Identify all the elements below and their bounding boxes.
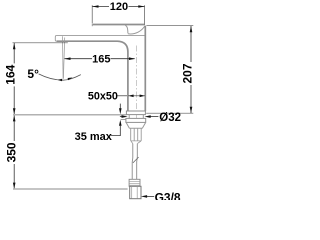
body centerline — [136, 46, 138, 123]
lever front end — [91, 24, 93, 26]
dimension 120 arrow right — [138, 5, 144, 8]
dimension 120 extension line left — [91, 5, 93, 23]
svg-text:120: 120 — [110, 1, 128, 13]
dimension 164 arrow top — [13, 43, 16, 49]
connector nut facets — [132, 187, 138, 199]
dimension 35 max lower arrow — [119, 120, 122, 126]
hose end reference line — [13, 188, 128, 190]
water jet vertical line — [62, 36, 65, 78]
dimension 165 arrow right — [129, 57, 135, 60]
dimension 165 arrow left — [64, 57, 70, 60]
flexible hose — [132, 144, 137, 180]
svg-text:35 max: 35 max — [75, 131, 113, 143]
mounting nut — [126, 123, 145, 129]
hose collar bottom — [131, 141, 142, 144]
dimension 350 line — [13, 115, 15, 189]
angle 5 deg leader and arc — [39, 74, 81, 80]
svg-text:164: 164 — [4, 64, 18, 84]
horseshoe washer — [126, 118, 146, 122]
dimension 207 extension top — [146, 25, 193, 27]
body top saddle curve — [128, 26, 145, 34]
dimension 50x50 arrow left — [128, 95, 133, 98]
dimension diameter 32 right arrow — [150, 116, 158, 118]
dimension 207 arrow top — [190, 26, 193, 32]
dimension 165 label — [92, 54, 110, 64]
dimension 207 label — [183, 62, 193, 85]
dimension 164 extension line — [13, 42, 68, 44]
body rear edge — [144, 26, 146, 112]
connector G3/8 arrow — [141, 195, 147, 198]
arc arrow right — [68, 78, 73, 81]
svg-text:G3/8: G3/8 — [155, 191, 181, 201]
spout tip — [55, 35, 56, 41]
lever rear step — [125, 25, 128, 33]
dimension 350 arrow top — [13, 115, 16, 121]
svg-text:Ø32: Ø32 — [159, 112, 181, 124]
hose ferrule — [129, 179, 140, 186]
svg-text:50x50: 50x50 — [88, 91, 118, 103]
svg-text:350: 350 — [4, 142, 18, 162]
arc arrow left — [57, 79, 62, 81]
hose collars — [131, 128, 142, 141]
dimension 50x50 inner line — [128, 95, 145, 97]
dimension 207 extension bottom / deck right — [146, 112, 193, 114]
dimension diameter 32 left arrow — [120, 116, 122, 118]
svg-text:207: 207 — [181, 63, 195, 83]
hose break mark — [133, 157, 139, 163]
dimension 164 arrow bottom — [13, 108, 16, 114]
ferrule grooves — [129, 181, 140, 185]
dimension 120 line — [92, 6, 144, 8]
dimension 165 line — [65, 58, 135, 60]
shank left — [128, 115, 130, 119]
dimension 350 label — [6, 141, 16, 164]
countertop underside stub — [121, 119, 126, 121]
dimension 207 arrow bottom — [190, 107, 193, 113]
lever top line — [93, 24, 145, 26]
dimension 164 label — [6, 63, 16, 86]
spout top edge — [56, 34, 144, 36]
dimension 50x50 arrow right — [140, 95, 145, 98]
dimension 50x50 leader — [116, 95, 127, 97]
dimension 35 max upper arrow — [119, 104, 121, 109]
svg-text:5°: 5° — [27, 67, 39, 81]
dimension 164 line — [13, 43, 15, 115]
svg-text:165: 165 — [92, 53, 110, 65]
shank right — [142, 115, 144, 119]
spout underside and body front edge — [57, 41, 128, 111]
dimension 350 arrow bottom — [13, 183, 16, 189]
countertop line — [13, 114, 126, 116]
base flange — [126, 111, 145, 115]
dimension 120 arrow left — [92, 5, 98, 8]
water jet tilted line — [63, 38, 64, 79]
dimension 120 extension line right — [144, 5, 146, 25]
connector nut G3/8 — [130, 186, 141, 198]
dimension 207 line — [190, 26, 192, 113]
